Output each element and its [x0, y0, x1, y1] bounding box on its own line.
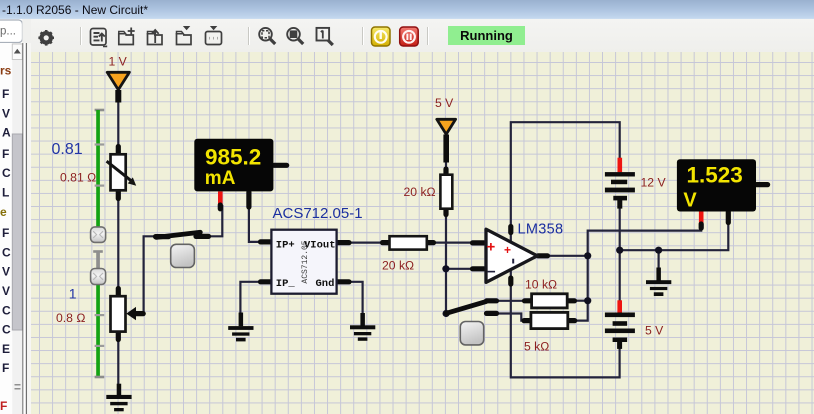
svg-text:20 kΩ: 20 kΩ — [382, 259, 414, 273]
wire node C to R4 right lead — [576, 300, 588, 302]
current sensor U2 ACS712.05-1 — [271, 230, 336, 294]
voltmeter red lead dark tip — [699, 224, 704, 228]
svg-text:E: E — [2, 342, 10, 356]
svg-text:5 V: 5 V — [435, 96, 454, 110]
ammeter right terminal stub — [274, 163, 287, 168]
svg-text:F: F — [2, 226, 9, 240]
pin stub VIout — [337, 240, 349, 245]
ground G2 (IP_) — [228, 313, 253, 342]
svg-text:e: e — [0, 205, 7, 219]
svg-text:1: 1 — [69, 285, 77, 301]
wire op-amp output to node B — [548, 255, 588, 257]
svg-text:mA: mA — [205, 168, 236, 189]
voltmeter black lead thick part — [726, 212, 731, 223]
ground G4 (mid supply) — [646, 268, 671, 297]
svg-text:1 V: 1 V — [109, 55, 128, 69]
pin stub Gnd — [337, 279, 349, 284]
switch SW1 right contact stub — [196, 234, 209, 239]
svg-text:IP+: IP+ — [276, 240, 295, 252]
op-amp - input stub — [473, 266, 485, 271]
wire wiper of RV2 to switch SW1 — [131, 236, 155, 313]
red lead of 12V battery — [617, 158, 622, 173]
scroll dots — [15, 384, 21, 390]
wire R2 bottom to node A and switch SW2 — [445, 209, 447, 314]
svg-text:IP_: IP_ — [276, 278, 296, 290]
wire op-amp V- to 5V battery minus — [511, 266, 620, 377]
wiper arrow shaft of RV2 — [134, 311, 143, 316]
battery B1 12V — [605, 172, 635, 209]
op-amp V+ pin nub — [508, 227, 513, 233]
svg-text:0.8 Ω: 0.8 Ω — [56, 311, 86, 325]
wire Gnd pin to ground — [350, 282, 363, 315]
op-amp output stub — [538, 253, 548, 258]
wire node A to op-amp - input — [446, 268, 471, 270]
svg-text:ACS712.05: ACS712.05 — [301, 240, 310, 283]
switch SW2 lower contact stub — [487, 311, 497, 316]
icon zoom extents — [259, 28, 275, 44]
red lead of voltmeter — [699, 212, 704, 225]
junction node B (output) — [584, 252, 591, 259]
junction node mid-supply at battery — [616, 247, 623, 254]
ammeter display 985.2 mA — [194, 139, 273, 192]
svg-text:V: V — [2, 106, 10, 120]
svg-text:0.81 Ω: 0.81 Ω — [60, 171, 96, 185]
wire mid rail to ground G4 — [657, 250, 659, 269]
ammeter red lead dark tip — [218, 205, 223, 209]
svg-text:+: + — [504, 243, 511, 257]
op-amp U1 LM358 — [486, 229, 537, 282]
wire 12V battery minus down to 5V battery plus — [619, 208, 621, 301]
power symbol V1 1V — [107, 72, 129, 102]
junction node SW2 pivot — [443, 310, 450, 317]
pin stub IP_ — [261, 279, 272, 284]
svg-text:0.81: 0.81 — [52, 141, 83, 158]
wire op-amp V+ to 12V battery — [511, 122, 620, 243]
icon export list — [91, 29, 107, 47]
junction node A (20k/-input/switch) — [442, 265, 449, 272]
svg-text:12 V: 12 V — [641, 176, 667, 190]
svg-text:V: V — [683, 189, 697, 211]
leads of R5 5k — [524, 318, 531, 323]
svg-text:Gnd: Gnd — [316, 278, 335, 290]
panel right border — [22, 43, 23, 414]
icon open folder up — [148, 30, 163, 45]
switch SW1 blade — [156, 232, 200, 237]
svg-text:V: V — [2, 284, 10, 298]
slider control for RV2 — [91, 250, 106, 378]
svg-text:F: F — [2, 361, 9, 375]
push button for SW1 — [171, 244, 195, 267]
wire RV1 to RV2 — [117, 199, 119, 289]
svg-text:5 kΩ: 5 kΩ — [524, 339, 550, 353]
svg-text:V: V — [2, 265, 10, 279]
leads of RV2 — [116, 289, 121, 297]
resistor R4 10k — [532, 294, 568, 308]
voltmeter right terminal stub — [757, 182, 768, 187]
wire R3 to op-amp + input — [435, 242, 472, 244]
svg-text:C: C — [2, 245, 11, 259]
wire mid supply rail to voltmeter black lead — [620, 212, 729, 250]
push button for SW2 — [460, 322, 483, 345]
svg-text:20 kΩ: 20 kΩ — [404, 185, 436, 199]
ammeter black lead thick part — [246, 192, 251, 207]
svg-text:−: − — [487, 264, 496, 281]
svg-text:rs: rs — [0, 64, 12, 78]
svg-text:F: F — [2, 87, 9, 101]
op-amp V- pin nub — [508, 278, 513, 284]
wire node B to voltmeter red lead — [588, 225, 702, 256]
wire ammeter black lead to IP+ — [249, 205, 260, 242]
scrollbar up button — [12, 44, 22, 60]
junction node mid-supply at ground — [655, 247, 662, 254]
svg-text:5 V: 5 V — [645, 324, 664, 338]
red lead of 5V battery — [617, 300, 622, 313]
search field — [0, 20, 23, 43]
icon library dots — [206, 27, 222, 45]
svg-text:A: A — [2, 126, 11, 140]
slider control for RV1 — [91, 109, 106, 243]
voltmeter display 1.523 V — [677, 159, 756, 211]
icon zoom area — [287, 28, 303, 44]
resistor R3 20k horizontal — [390, 236, 427, 249]
op-amp + input stub — [473, 240, 485, 245]
svg-text:LM358: LM358 — [518, 222, 564, 238]
svg-text:p...: p... — [0, 26, 16, 38]
wire IP_ pin to ground — [240, 282, 260, 314]
wire SW2 upper throw to R4 left lead — [496, 300, 524, 302]
button pause (red) — [400, 27, 419, 46]
potentiometer RV2 0.8 ohm — [111, 296, 137, 331]
icon gear settings — [38, 30, 54, 46]
svg-text:C: C — [2, 323, 11, 337]
svg-text:F: F — [2, 147, 9, 161]
resistor R5 5k — [531, 312, 568, 328]
scrollbar track — [12, 43, 22, 414]
ground G3 (sensor Gnd) — [350, 313, 375, 341]
svg-text:C: C — [2, 166, 11, 180]
list panel background — [0, 43, 22, 414]
svg-text:C: C — [2, 303, 11, 317]
svg-text:+: + — [487, 239, 496, 256]
icon save folder down — [177, 27, 192, 45]
svg-text:1.523: 1.523 — [687, 162, 743, 187]
switch SW2 blade — [446, 302, 486, 314]
red lead of ammeter — [218, 191, 223, 205]
lead left of R3 — [383, 240, 390, 245]
list item letters — [0, 64, 12, 414]
button run (yellow) — [372, 27, 391, 46]
battery B2 5V — [605, 313, 635, 349]
svg-text:F: F — [0, 399, 7, 413]
icon zoom 100 — [317, 28, 333, 45]
icon new folder — [119, 28, 135, 45]
lead right of R3 — [427, 240, 434, 245]
svg-text:L: L — [2, 186, 9, 200]
wire SW2 lower throw to R5 left lead — [496, 314, 524, 321]
switch SW2 upper contact stub — [487, 298, 497, 303]
wire SW1 to ammeter red lead — [210, 205, 223, 236]
power symbol V2 5V — [437, 119, 456, 162]
wire RV2 to ground — [117, 339, 119, 385]
ground G1 (main) — [106, 384, 131, 412]
scrollbar thumb — [12, 134, 22, 330]
svg-text:ACS712.05-1: ACS712.05-1 — [273, 205, 363, 222]
leads of R2 20k vertical — [443, 169, 448, 175]
pin stub IP+ — [261, 239, 272, 244]
resistor R2 20k vertical — [440, 175, 452, 209]
wire node B down to feedback resistors — [576, 256, 588, 321]
wire V2 to R2 top — [445, 140, 447, 176]
wire V1 to RV1 — [117, 101, 119, 147]
variable resistor RV1 0.81 ohm — [107, 154, 137, 190]
wire VIout to R3 — [350, 242, 382, 244]
switch SW1 left contact stub — [156, 234, 169, 239]
junction node C (R4 right) — [584, 297, 591, 304]
leads of R4 10k — [525, 298, 532, 303]
svg-text:10 kΩ: 10 kΩ — [525, 277, 557, 291]
svg-text:985.2: 985.2 — [205, 145, 261, 170]
leads of RV1 — [116, 147, 121, 155]
